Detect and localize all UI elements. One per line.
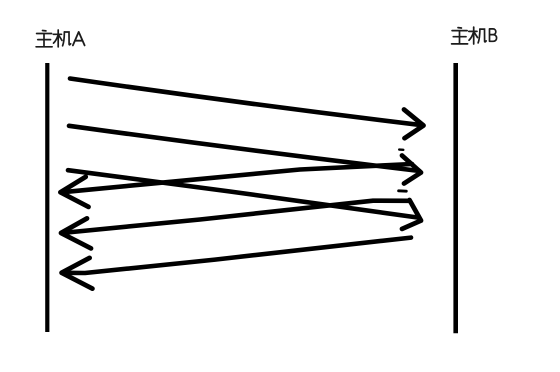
arrow 5 shaft B to A [62, 201, 410, 233]
dash mark 2 [399, 189, 407, 192]
arrow 6 shaft B to A [63, 238, 412, 273]
arrow 5 head [61, 218, 91, 248]
dash mark 1 [399, 148, 403, 151]
lifeline host B [453, 63, 458, 333]
arrow 4 shaft A to B [68, 170, 418, 217]
label 主机B [452, 27, 497, 44]
arrow 1 head [404, 110, 424, 139]
letter A [73, 32, 85, 46]
lifeline host A [45, 63, 49, 332]
arrow 6 head [62, 258, 93, 289]
arrow 3 shaft B to A [62, 164, 413, 192]
arrow 4 head [402, 200, 421, 229]
label 主机A [36, 30, 85, 47]
arrow 1 shaft A to B [70, 79, 422, 126]
arrow 2 shaft A to B [69, 126, 420, 171]
letter B [490, 29, 497, 41]
arrow 3 head [60, 177, 88, 207]
arrow 2 head [402, 156, 421, 184]
